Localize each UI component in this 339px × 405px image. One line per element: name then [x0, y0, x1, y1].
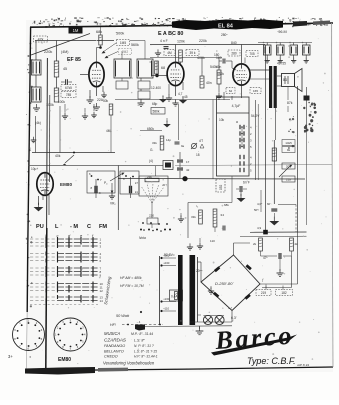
wire: L1-L2 link	[35, 75, 37, 87]
left border speckle	[26, 42, 33, 357]
triode-diode V2 EABC80	[167, 62, 184, 85]
wire: x118 long vertical	[117, 166, 119, 231]
resistor R18 k2	[213, 209, 217, 227]
wire: sub-network frame above transformer	[188, 202, 232, 204]
wire: vertical x265	[265, 45, 267, 232]
capacitor C7 stack 17	[177, 159, 183, 161]
wire: heater rail bottom	[136, 325, 232, 328]
wire: EF85 anode vertical	[96, 48, 98, 63]
boxed label (21k)	[282, 176, 295, 182]
junction on y232	[263, 230, 268, 235]
ground near C2	[157, 49, 159, 53]
resistor R7 detector load	[179, 50, 183, 62]
bridge diode 4	[213, 292, 219, 298]
dial cord line 1	[46, 58, 49, 228]
bridge diode 2	[246, 264, 252, 270]
Barco logo underline swoosh	[211, 335, 297, 356]
wire: second horizontal y236	[240, 235, 307, 237]
wire: vertical x297 long	[297, 86, 299, 232]
wire: rail y99 center	[115, 99, 230, 101]
wire: corner to x296	[278, 204, 296, 206]
wire: C7 C8 vertical	[179, 152, 181, 159]
arrow to boxed label 1	[103, 43, 116, 52]
resistor R16 anode load EF85	[99, 35, 102, 45]
wire: R10 down to rail	[110, 115, 112, 153]
IFT3 pin cluster	[125, 175, 127, 177]
wire: vertical pair right of switch box	[255, 100, 257, 180]
ground left edge	[33, 137, 35, 140]
resistor R9 540k	[217, 70, 221, 84]
top border line	[30, 23, 333, 27]
tuning indicator feed box	[163, 161, 173, 170]
wire: x291 down to y287	[291, 256, 293, 288]
ground right of EF85	[103, 92, 105, 95]
wire: R3 to R4	[56, 77, 58, 88]
ground EM80 filled	[38, 196, 40, 205]
capacitor C9 under switch	[239, 186, 241, 192]
wire: top rail to IFT	[97, 40, 115, 42]
boxed label (205)	[282, 163, 295, 169]
wire: IFT down	[140, 78, 142, 81]
trimmer capacitor CT1	[191, 143, 196, 148]
junction ticks above labels	[265, 286, 267, 290]
antenna coil L1	[32, 60, 42, 75]
left border line lower faint	[25, 312, 28, 369]
bridge rectifier D-250-80 diamond	[201, 255, 260, 311]
resistor R2 1M black label box	[69, 26, 83, 34]
ground EABC80 g	[175, 99, 177, 103]
dial cord line 2	[48, 95, 50, 182]
boxed label (9k)	[282, 147, 295, 153]
wire: OT secondary to speaker	[277, 75, 281, 77]
wire: bridge right output	[260, 283, 298, 285]
volume pot R13 250k	[272, 148, 276, 161]
power pentode V3 EL84	[233, 64, 250, 85]
pilot lamp LA1	[203, 315, 212, 324]
magic eye V4 EM80	[37, 173, 53, 196]
wire: EL84 cathode down	[241, 85, 243, 98]
IF can A trimmer	[116, 81, 128, 89]
wire: bridge top to B+	[233, 243, 235, 255]
ground above transformer b	[189, 243, 191, 247]
IF transformer T-IF1 box	[137, 59, 153, 78]
boxed label (1M5)	[117, 40, 130, 46]
boxed label (4M) 2	[164, 50, 175, 56]
resistor R14 2k	[259, 238, 263, 251]
electrolytic capacitor bank C5	[264, 45, 272, 55]
wire: x178 vertical	[178, 104, 180, 140]
wire: diagonal antenna lead	[31, 34, 90, 56]
boxed label 580k	[151, 108, 165, 115]
resistor R1 47k boxed label	[34, 36, 48, 42]
bridge diode 1	[214, 266, 220, 272]
capacitor C10 4n7	[271, 208, 277, 210]
ground below C11	[279, 259, 281, 271]
wire: lamp rail	[203, 315, 224, 317]
ground under switch filled	[240, 192, 242, 196]
junction node at IFT output	[155, 74, 158, 77]
junction dot EF85 anode	[99, 46, 102, 49]
resistor R10 50k agc	[109, 104, 113, 115]
resistor R3 45k	[54, 61, 59, 77]
ground center top filled	[159, 99, 167, 103]
pot wiper arrow	[279, 166, 291, 178]
svg-text:3+: 3+	[8, 354, 13, 359]
bridge diode 3	[245, 294, 251, 300]
switch contact matrix rows	[30, 237, 103, 305]
ground below L2	[36, 104, 38, 108]
ground EABC80 k	[168, 94, 170, 98]
tube socket diagram 1	[13, 319, 45, 351]
heavy switch column line b	[46, 228, 47, 368]
boxed label (052) rotated	[216, 179, 225, 192]
resistor R6 68	[155, 61, 159, 74]
ground VR2 with arrow	[111, 183, 113, 192]
ground row upper-mid-left	[64, 112, 66, 116]
wire: y287 horizontal	[262, 287, 292, 289]
ground below IFT	[140, 99, 142, 103]
EABC80 cathode wires	[175, 86, 177, 96]
IFT2 pin cluster 6789	[91, 175, 93, 177]
capacitor C6 34p	[175, 141, 180, 143]
IF can box 1 outline	[87, 171, 115, 193]
mains entry connector blob	[135, 325, 145, 331]
output transformer T2 core bars	[269, 66, 272, 108]
resistor R8 40a	[200, 76, 204, 88]
wire: vertical x213	[212, 100, 214, 179]
scan noise column	[288, 102, 317, 149]
wire: speaker return	[306, 87, 308, 96]
wire: vertical x274	[273, 140, 275, 204]
capacitor C8 stack 42	[177, 167, 183, 169]
wire: T1 secondary top to bridge	[198, 261, 202, 263]
wire: rail y165 right portion	[175, 165, 332, 166]
wire: rotor common down	[151, 203, 153, 218]
ground EF85 cathode	[89, 96, 91, 100]
boxed label (182)	[276, 290, 293, 296]
ground below C10 filled	[273, 213, 275, 219]
wire: EL84 anode to OT	[250, 69, 269, 71]
fuse F1 0,4A	[170, 290, 183, 301]
boxed label (14k5)	[282, 140, 295, 146]
boxed label (67k5)	[61, 85, 76, 91]
ground below transformer	[199, 326, 201, 329]
pilot lamp LA2	[215, 315, 224, 324]
wire: faint long rail y165	[28, 165, 163, 167]
EF85 cathode network wires	[96, 87, 98, 96]
loudspeaker LS	[282, 74, 295, 87]
boxed label (39k)	[186, 50, 199, 56]
IF can box 3 outline	[139, 176, 168, 196]
ground mid filled	[163, 124, 171, 127]
tube socket diagram 2 EM80	[54, 318, 87, 351]
wire: switch box feeds	[231, 96, 233, 100]
mains transformer T1 primary winding	[159, 256, 161, 325]
switch S1 contacts group b	[239, 155, 241, 159]
wire: main distribution rail y178	[118, 178, 305, 181]
ground sub-network	[180, 213, 182, 217]
resistor R11 650k	[160, 136, 164, 150]
junction blob on rail	[182, 176, 187, 181]
mains transformer T1 core bar 2	[190, 255, 196, 325]
tap arrow on mid rail	[65, 155, 74, 163]
ground above transformer	[199, 242, 201, 246]
antenna coil L2	[32, 87, 42, 102]
capacitor C4 tone	[304, 96, 310, 101]
bottom border ink smudge	[25, 367, 95, 375]
dash marks on top border	[122, 24, 126, 26]
resistor R15 2k b	[290, 238, 294, 251]
switch rotor dashed fan	[141, 186, 152, 203]
wire: rail y57 segment	[150, 57, 222, 59]
arrow to boxed label 2	[106, 52, 118, 58]
wire: x155 vertical tuner	[155, 166, 157, 176]
wire: bridge bottom down	[231, 311, 233, 323]
wire: vertical x60	[59, 106, 61, 153]
capacitor C12 sub-network	[222, 226, 224, 231]
IF trafo trimmer boxes	[138, 81, 150, 89]
wire: mid rail y152	[32, 152, 115, 154]
top border heavy ink blob	[172, 20, 283, 31]
wire: vertical x35 upper	[35, 116, 37, 153]
band switch S1 wafer box	[217, 97, 250, 176]
mains transformer T1 core bar 1	[178, 255, 183, 325]
IF transformer can A	[114, 59, 131, 78]
IF can box 2 outline	[120, 171, 139, 194]
scan top speckle band	[32, 17, 331, 28]
wire: EM80 stubs	[48, 195, 50, 215]
wire: T1 secondary bottom	[198, 314, 202, 316]
ground below R9	[218, 92, 220, 96]
mains transformer secondary line	[197, 257, 199, 322]
capacitor C11 47n	[278, 253, 280, 259]
capacitor C1 coupling	[65, 79, 67, 85]
wire: EL84 screen	[250, 78, 269, 80]
left border line	[27, 27, 30, 312]
wire: y130 stub	[140, 130, 162, 132]
wire: caps joint	[283, 255, 292, 257]
boxed label (705)	[246, 51, 258, 57]
scan wash veil	[26, 20, 333, 372]
boxed label (280)	[228, 50, 240, 56]
wire: R7 down to tube	[180, 62, 182, 66]
wire: EL84 top to rail	[241, 45, 243, 65]
wire: x261 stub	[260, 190, 262, 212]
junction dots row 2	[142, 222, 144, 224]
boxed label (62)	[226, 88, 235, 94]
wire: EF85 grid lead	[80, 74, 89, 76]
wire: vertical x306 mid	[306, 130, 308, 225]
wire: IFT to EABC grid	[152, 75, 167, 77]
ground near bridge left	[210, 286, 212, 289]
resistor R12 22k horizontal	[145, 178, 159, 182]
boxed label (785)	[61, 92, 76, 98]
boxed label (2M2)	[119, 49, 132, 55]
wire: EABC80 anode up	[175, 45, 177, 63]
wire: top rail left section	[35, 40, 96, 42]
wire: B+ rail right above caps	[258, 42, 312, 44]
ground EF85 suppressor	[96, 103, 98, 107]
resistor R4 20k	[54, 88, 59, 102]
junction dots row above power section	[140, 229, 142, 231]
wire: EL84 grid	[231, 61, 233, 68]
boxed label (165)	[250, 88, 261, 94]
bottom border line	[25, 367, 333, 371]
pentode V1 EF85	[89, 62, 104, 86]
wire: ground feeds	[64, 104, 66, 112]
scan noise scatter	[30, 32, 329, 364]
wire: horizontal y232 right	[250, 231, 307, 233]
right border line	[332, 23, 334, 367]
boxed label (219)	[256, 290, 271, 296]
capacitor C3 coupling to EL84	[222, 59, 224, 64]
wire: top rail center	[150, 44, 265, 46]
resistor R17 33k	[199, 210, 203, 224]
